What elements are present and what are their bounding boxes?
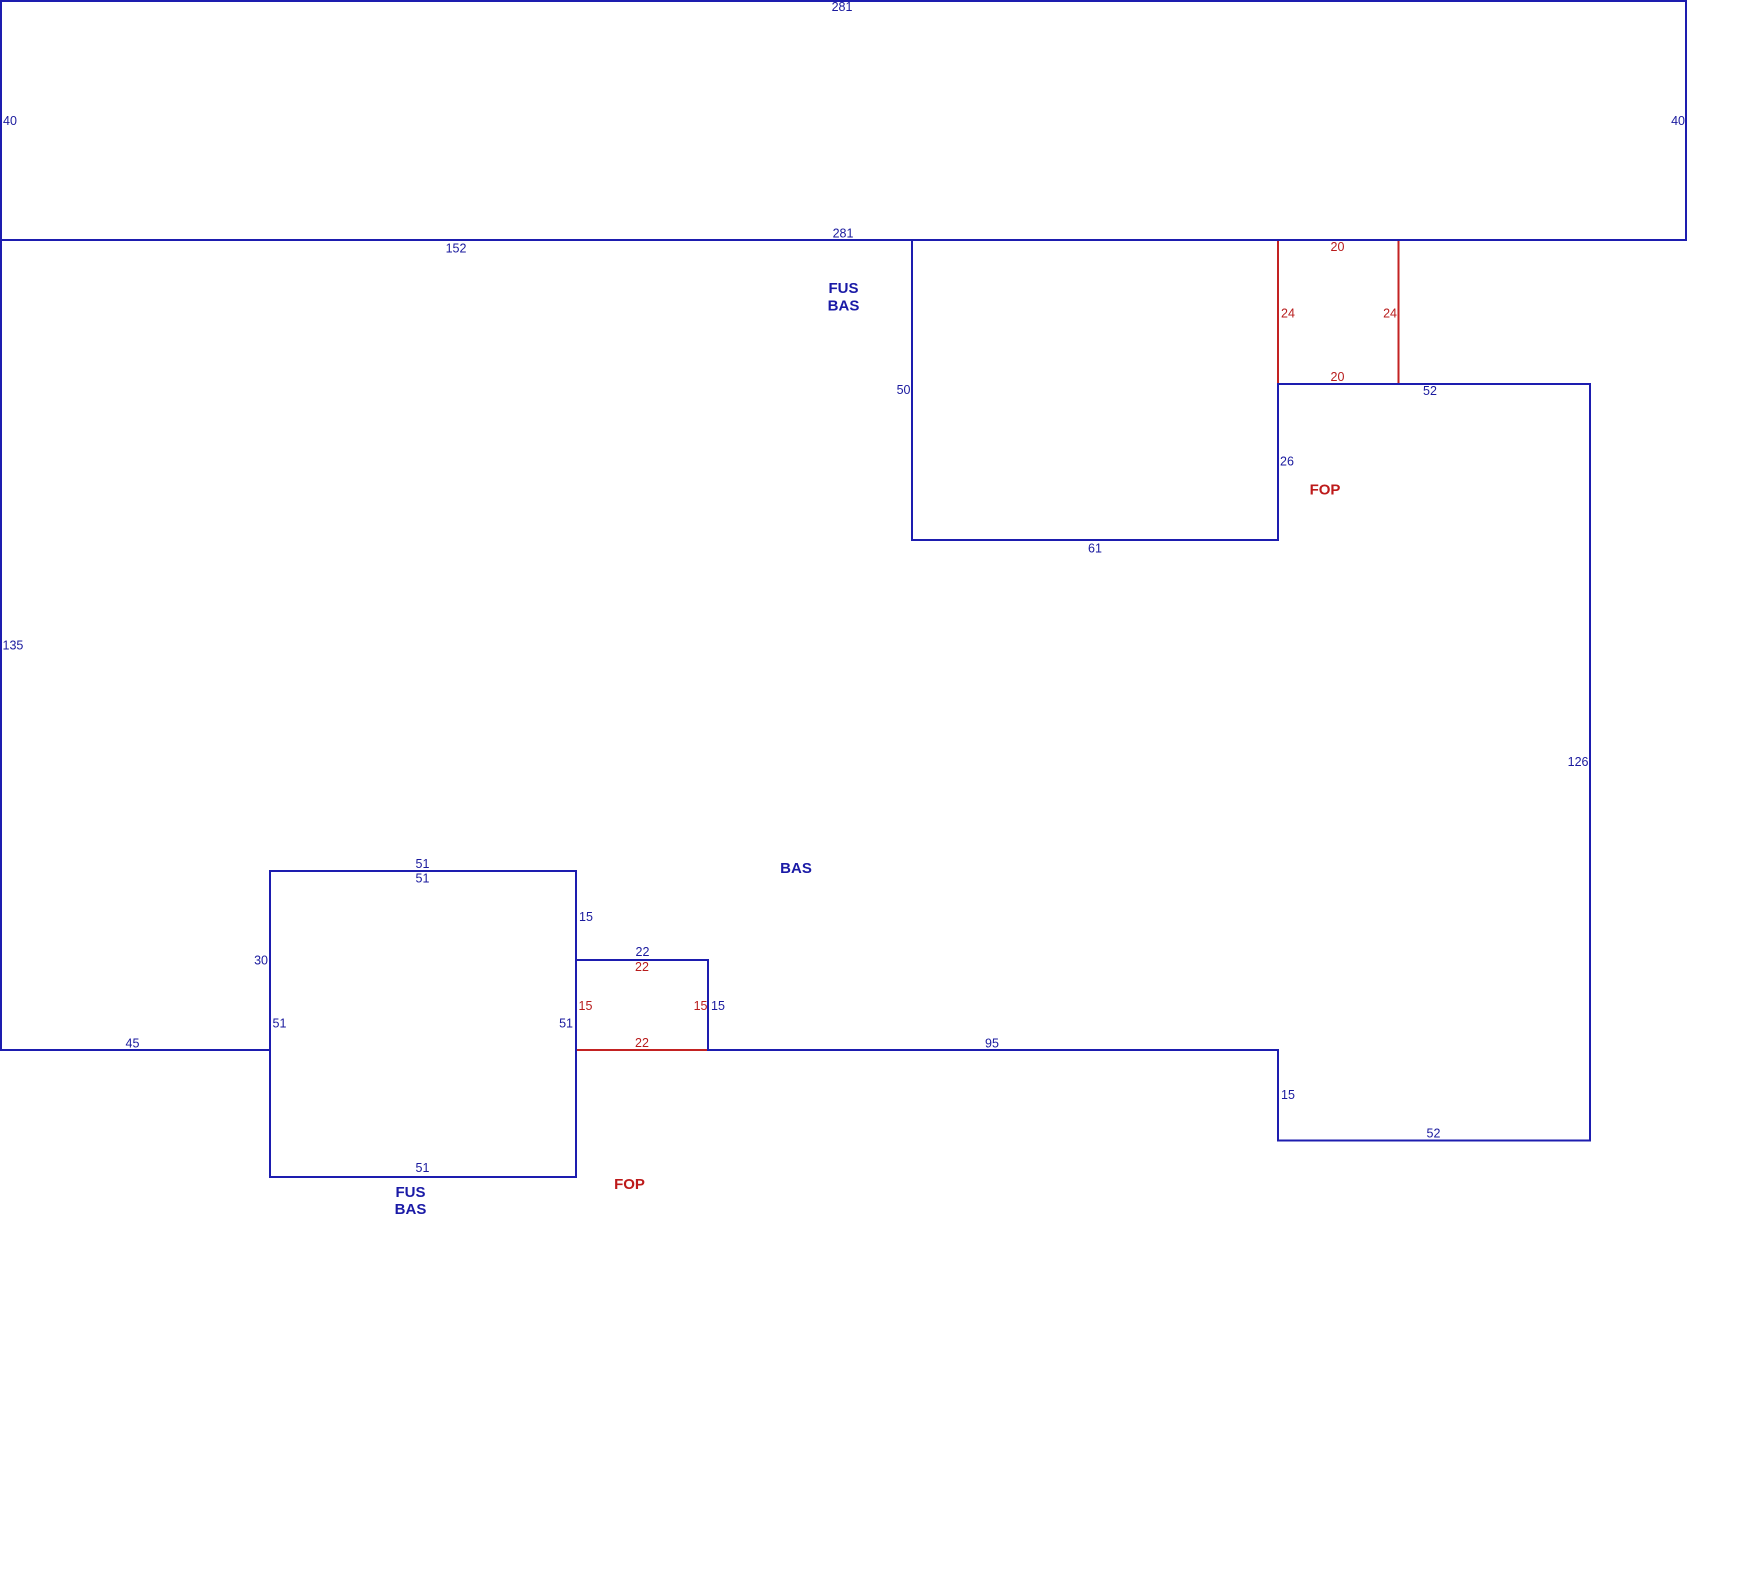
FOP porch outline (lower, red) xyxy=(576,960,708,1050)
svg-text:20: 20 xyxy=(1331,370,1345,384)
wall: left edge of main BAS area xyxy=(0,240,2,1051)
svg-text:24: 24 xyxy=(1281,307,1295,321)
wall: left edge of upper FUS/BAS rectangle xyxy=(0,0,2,240)
svg-text:51: 51 xyxy=(416,872,430,886)
wall: horizontal below interior box (61) xyxy=(911,539,1279,541)
svg-text:51: 51 xyxy=(416,1161,430,1175)
svg-text:15: 15 xyxy=(579,910,593,924)
svg-text:52: 52 xyxy=(1423,384,1437,398)
svg-text:15: 15 xyxy=(1281,1088,1295,1102)
wall: horizontal top of right wing (52) xyxy=(1277,383,1591,385)
wall: top edge of upper FUS/BAS rectangle xyxy=(0,0,1687,2)
wall: lower-left horizontal (45) xyxy=(0,1049,271,1051)
svg-text:95: 95 xyxy=(985,1037,999,1051)
wall: lower FUS/BAS square xyxy=(270,871,576,1177)
svg-text:15: 15 xyxy=(694,999,708,1013)
svg-text:26: 26 xyxy=(1280,455,1294,469)
svg-text:22: 22 xyxy=(635,1036,649,1050)
wall: right edge of right wing (126) xyxy=(1589,383,1591,1142)
svg-text:51: 51 xyxy=(416,857,430,871)
svg-text:FOP: FOP xyxy=(1310,482,1341,499)
svg-text:61: 61 xyxy=(1088,542,1102,556)
svg-text:135: 135 xyxy=(3,639,24,653)
svg-text:22: 22 xyxy=(635,960,649,974)
wall: right edge of upper FUS/BAS rectangle xyxy=(1685,0,1687,240)
svg-text:24: 24 xyxy=(1383,307,1397,321)
svg-text:40: 40 xyxy=(1671,114,1685,128)
wall: long horizontal (95) xyxy=(707,1049,1279,1051)
svg-text:281: 281 xyxy=(833,227,854,241)
wall: small porch right edge (15) xyxy=(707,959,709,1051)
svg-text:152: 152 xyxy=(446,242,467,256)
wall: step vertical (15) xyxy=(1277,1049,1279,1142)
svg-text:281: 281 xyxy=(832,0,853,14)
svg-text:FUS: FUS xyxy=(396,1184,426,1201)
wall: long horizontal party wall xyxy=(0,239,1687,241)
wall: bottom edge of right wing (52) xyxy=(1277,1140,1591,1142)
svg-text:BAS: BAS xyxy=(780,860,812,877)
svg-text:126: 126 xyxy=(1568,755,1589,769)
wall: vertical at FOP left (26) xyxy=(1277,383,1279,541)
svg-text:50: 50 xyxy=(897,383,911,397)
svg-text:45: 45 xyxy=(126,1037,140,1051)
svg-text:15: 15 xyxy=(711,999,725,1013)
svg-text:BAS: BAS xyxy=(828,298,860,315)
svg-text:22: 22 xyxy=(636,945,650,959)
svg-text:20: 20 xyxy=(1331,240,1345,254)
svg-text:51: 51 xyxy=(559,1017,573,1031)
svg-text:51: 51 xyxy=(273,1017,287,1031)
svg-text:BAS: BAS xyxy=(395,1201,427,1218)
wall: interior vertical (50) xyxy=(911,239,913,541)
svg-text:30: 30 xyxy=(254,954,268,968)
svg-text:15: 15 xyxy=(579,999,593,1013)
svg-text:FUS: FUS xyxy=(829,280,859,297)
svg-text:FOP: FOP xyxy=(614,1176,645,1193)
FOP porch outline (upper, red) xyxy=(1278,240,1399,384)
svg-text:40: 40 xyxy=(3,114,17,128)
svg-text:52: 52 xyxy=(1427,1127,1441,1141)
wall: small porch top edge (22) xyxy=(575,959,709,961)
